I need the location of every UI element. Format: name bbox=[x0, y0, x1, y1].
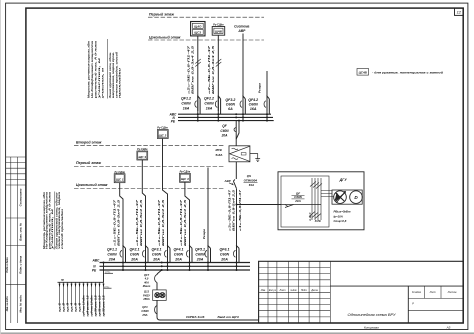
svg-text:С60N: С60N bbox=[181, 102, 191, 106]
cable label QF6.1 column bbox=[238, 189, 242, 231]
svg-text:ЩС 4: ЩС 4 bbox=[181, 177, 189, 181]
svg-text:20А: 20А bbox=[294, 199, 301, 203]
svg-text:20А: 20А bbox=[221, 133, 229, 137]
svg-text:20А: 20А bbox=[152, 257, 160, 261]
svg-text:гр.11 осв. 1,0: гр.11 осв. 1,0 bbox=[97, 295, 101, 317]
svg-text:ДГУ: ДГУ bbox=[339, 178, 348, 182]
svg-text:«1»-5Б-0,8-П1-47: «1»-5Б-0,8-П1-47 bbox=[238, 189, 242, 231]
svg-text:С60N: С60N bbox=[220, 129, 229, 133]
svg-text:Второй этаж: Второй этаж bbox=[76, 140, 102, 144]
svg-text:С60N: С60N bbox=[152, 252, 162, 256]
svg-text:ВВГнг 0,8-5х4 2,5: ВВГнг 0,8-5х4 2,5 bbox=[139, 199, 143, 246]
svg-text:6А: 6А bbox=[228, 107, 233, 111]
svg-text:ЩАО: ЩАО bbox=[194, 25, 202, 29]
svg-text:гр: гр bbox=[61, 278, 64, 281]
svg-text:QF1.2: QF1.2 bbox=[181, 97, 191, 101]
svg-text:Q13: Q13 bbox=[144, 290, 149, 294]
breaker QF5.1 bbox=[195, 245, 211, 270]
svg-text:- для уравнив. потенциалов с в: - для уравнив. потенциалов с ванной bbox=[372, 71, 443, 75]
breaker QF4.2 bbox=[248, 96, 269, 121]
svg-text:А, В, С: А, В, С bbox=[308, 212, 312, 222]
surge protector МТВ 5х8А bbox=[216, 146, 250, 162]
title block texts bbox=[261, 289, 457, 306]
svg-text:гр.7 осв. 1,0 кВт: гр.7 осв. 1,0 кВт bbox=[81, 295, 85, 317]
breaker QF (feeder to МТВ) bbox=[220, 121, 239, 146]
energy meter Q13 bbox=[142, 290, 166, 306]
svg-text:ЦС4В: ЦС4В bbox=[359, 70, 368, 74]
svg-text:Подп.: Подп. bbox=[301, 289, 308, 292]
wire: ЩЧВ feeder down to QF2.2 bbox=[207, 35, 218, 111]
breaker QF2.2 bbox=[204, 96, 221, 121]
svg-text:ВВГнг 0,8-5х4 2,5: ВВГнг 0,8-5х4 2,5 bbox=[232, 189, 236, 231]
svg-text:Листов: Листов bbox=[447, 291, 457, 294]
svg-text:С60N: С60N bbox=[220, 252, 230, 256]
breaker QF3.1 bbox=[152, 245, 171, 270]
svg-text:Лист: Лист bbox=[279, 289, 286, 292]
svg-text:сеть: сеть bbox=[104, 286, 110, 288]
panel box ЩС3 bbox=[137, 148, 148, 160]
svg-text:участок, м: участок, м bbox=[102, 68, 105, 100]
svg-text:С60N: С60N bbox=[107, 252, 117, 256]
svg-text:63А: 63А bbox=[249, 183, 254, 187]
svg-text:РИЗУ: РИЗУ bbox=[143, 293, 150, 297]
cable label QF1.1 bbox=[113, 199, 121, 246]
svg-text:АВС: АВС bbox=[92, 259, 101, 263]
breaker QF1.1 bbox=[107, 245, 126, 270]
svg-text:5х8А: 5х8А bbox=[216, 153, 223, 157]
floor line: Второй этаж bbox=[74, 140, 225, 145]
cable label QF4.1 bbox=[179, 199, 187, 246]
floor line: Цокольный этаж (mid) bbox=[74, 183, 224, 188]
title block bbox=[259, 261, 464, 323]
panel box ЩС1 bbox=[114, 171, 125, 183]
svg-text:ВВГнг 0,8-5х4 2,5: ВВГнг 0,8-5х4 2,5 bbox=[183, 199, 187, 246]
breaker QF1.2 bbox=[181, 96, 200, 121]
svg-text:прокладки: прокладки bbox=[119, 67, 122, 98]
wire: reserve feeder QF4.2 bbox=[258, 71, 268, 111]
svg-text:гр.1: гр.1 bbox=[57, 302, 61, 312]
floor line: Первый этаж (top) bbox=[148, 13, 264, 18]
svg-text:С60N: С60N bbox=[195, 252, 205, 256]
svg-text:АВР: АВР bbox=[224, 179, 231, 183]
svg-text:ЩС 1: ЩС 1 bbox=[116, 178, 124, 182]
table header rotated text (upper section) bbox=[88, 39, 122, 101]
bus АВС (lower) bbox=[92, 259, 251, 263]
svg-text:16А: 16А bbox=[206, 107, 213, 111]
svg-text:гр.8 розет. 1,5: гр.8 розет. 1,5 bbox=[85, 295, 89, 317]
wire: Система АВР feeder down to QF3.2 bbox=[242, 34, 244, 112]
svg-text:Монт: Монт bbox=[143, 284, 151, 288]
svg-text:40А: 40А bbox=[143, 280, 149, 284]
svg-text:РВых=5кВт: РВых=5кВт bbox=[334, 210, 351, 214]
svg-text:Согласовано: Согласовано bbox=[19, 188, 23, 206]
wire ЩС3 to QF2.1 bbox=[142, 160, 145, 246]
svg-text:Инв. № подл.: Инв. № подл. bbox=[6, 296, 9, 312]
svg-text:4,0: 4,0 bbox=[144, 277, 149, 281]
stub line 2 bbox=[104, 286, 112, 288]
svg-text:QF4.2: QF4.2 bbox=[248, 98, 258, 102]
svg-text:Однолинейная схема ВРУ: Однолинейная схема ВРУ bbox=[348, 313, 397, 317]
svg-text:Копировал: Копировал bbox=[364, 326, 379, 330]
floor line: Цокольный этаж (top) bbox=[148, 36, 264, 40]
svg-text:20А: 20А bbox=[220, 257, 228, 261]
generator ratings text bbox=[333, 210, 351, 224]
svg-text:С60N: С60N bbox=[130, 252, 140, 256]
bus N (lower) bbox=[93, 265, 250, 269]
wire reserve QF5.1 bbox=[202, 168, 208, 247]
svg-text:Инв. № подл.: Инв. № подл. bbox=[19, 294, 23, 312]
svg-text:Ввод от ЩУЗ: Ввод от ЩУЗ bbox=[218, 315, 239, 319]
wire ЩС2 to QF3.1 bbox=[163, 139, 168, 247]
svg-text:20А: 20А bbox=[108, 257, 116, 261]
svg-text:С60N: С60N bbox=[249, 102, 259, 106]
svg-text:25А: 25А bbox=[141, 313, 147, 317]
note box ЦС4В bbox=[357, 69, 443, 76]
svg-text:СИП2А 4х16: СИП2А 4х16 bbox=[186, 315, 205, 319]
svg-text:ЩС 3: ЩС 3 bbox=[138, 155, 146, 159]
svg-text:Первый этаж: Первый этаж bbox=[76, 161, 101, 165]
svg-text:сеть: сеть bbox=[105, 271, 111, 273]
bus N (upper) bbox=[173, 116, 274, 120]
svg-text:ЩСЗ: ЩСЗ bbox=[194, 31, 201, 35]
floor line: Первый этаж (mid) bbox=[74, 161, 225, 166]
svg-text:ОТМ63Ф4: ОТМ63Ф4 bbox=[244, 178, 258, 182]
phase labels in ДГУ bbox=[308, 212, 321, 222]
svg-text:Cosφ=0,8: Cosφ=0,8 bbox=[334, 219, 347, 223]
wire АВР down / junction to ДГУ bbox=[228, 189, 282, 248]
svg-text:С60N: С60N bbox=[204, 102, 214, 106]
svg-text:QF7: QF7 bbox=[144, 273, 150, 277]
generator G/D block bbox=[332, 190, 362, 204]
svg-text:QF4.1: QF4.1 bbox=[174, 247, 184, 251]
junction dots lower bus bbox=[103, 262, 238, 272]
svg-text:Цокольный этаж: Цокольный этаж bbox=[76, 183, 108, 187]
svg-text:Ру-СДде: Ру-СДде bbox=[213, 23, 224, 26]
wire ЩС1 to QF1.1 bbox=[120, 183, 123, 246]
breaker QF4.1 bbox=[174, 245, 193, 270]
svg-text:QS: QS bbox=[247, 174, 251, 178]
svg-text:АВР: АВР bbox=[237, 29, 246, 33]
stub line 1 bbox=[105, 271, 114, 273]
panel box ЩАО/ЩСЗ bbox=[191, 22, 205, 36]
junction dots upper bus bbox=[197, 113, 268, 121]
svg-text:Iр=10А: Iр=10А bbox=[333, 214, 342, 218]
svg-text:Кол.уч: Кол.уч bbox=[269, 289, 277, 292]
svg-text:гр.5: гр.5 bbox=[73, 302, 77, 312]
wire ЩС4 to QF4.1 bbox=[185, 182, 190, 246]
svg-text:А3: А3 bbox=[446, 326, 451, 330]
panel box ЩС2 bbox=[157, 127, 168, 139]
svg-text:Дата: Дата bbox=[310, 289, 318, 292]
svg-text:ЩС 2: ЩС 2 bbox=[159, 133, 167, 137]
left stamp column bbox=[6, 157, 26, 323]
svg-text:Резерв: Резерв bbox=[258, 83, 262, 93]
svg-text:Резерв: Резерв bbox=[202, 229, 206, 239]
svg-text:20А: 20А bbox=[174, 257, 182, 261]
svg-text:гр.12 роз. 1,5: гр.12 роз. 1,5 bbox=[101, 295, 105, 317]
svg-text:QF5.1: QF5.1 bbox=[195, 247, 205, 251]
svg-text:Лист: Лист bbox=[429, 291, 436, 294]
svg-text:МТВ: МТВ bbox=[216, 148, 222, 152]
svg-text:участка, м: участка, м bbox=[51, 209, 54, 252]
generator unit ДГУ box bbox=[278, 172, 364, 230]
cable bundle in ДГУ bbox=[309, 178, 334, 220]
svg-text:QF2.1: QF2.1 bbox=[130, 247, 140, 251]
svg-text:гр.2: гр.2 bbox=[61, 302, 65, 312]
input cable line from ЩУЗ bbox=[160, 315, 259, 320]
svg-text:12: 12 bbox=[457, 10, 462, 15]
input breaker QF7 bbox=[143, 270, 162, 290]
svg-text:Цокольный этаж: Цокольный этаж bbox=[149, 36, 181, 40]
svg-text:гр.6: гр.6 bbox=[77, 302, 81, 312]
svg-text:гр.9 осв. 1,0 кВт: гр.9 осв. 1,0 кВт bbox=[89, 295, 93, 317]
transfer switch АВР QF / QS bbox=[224, 174, 258, 189]
svg-text:ЩЧВ: ЩЧВ bbox=[215, 30, 222, 34]
svg-text:ВВГнг 0,8-3х4 2,5: ВВГнг 0,8-3х4 2,5 bbox=[211, 45, 215, 94]
breaker QF2.1 bbox=[130, 245, 149, 270]
svg-text:20А: 20А bbox=[130, 257, 138, 261]
svg-text:16А: 16А bbox=[250, 107, 257, 111]
svg-text:гр.3: гр.3 bbox=[65, 302, 69, 312]
ground (right of МТВ) bbox=[250, 154, 260, 162]
breaker QF3.2 bbox=[225, 96, 245, 121]
group feed drop bbox=[103, 263, 105, 283]
cable label QF3.1 bbox=[157, 199, 165, 246]
svg-text:25КА: 25КА bbox=[142, 297, 149, 301]
group bus line bbox=[58, 278, 104, 282]
svg-text:№док: №док bbox=[290, 289, 297, 292]
svg-text:20А: 20А bbox=[196, 257, 204, 261]
svg-text:С60N: С60N bbox=[174, 252, 184, 256]
cable label QF2.1 bbox=[135, 199, 143, 246]
wire feed inside ДГУ bbox=[281, 204, 321, 206]
bus PE (upper) bbox=[171, 119, 274, 123]
group labels bbox=[57, 295, 105, 317]
panel box ЩЧВ bbox=[212, 23, 225, 35]
svg-text:Подп. и дата: Подп. и дата bbox=[6, 257, 9, 273]
svg-text:Подп. и дата: Подп. и дата bbox=[19, 255, 23, 273]
svg-text:Первый этаж: Первый этаж bbox=[149, 13, 174, 17]
panel box ЩС4 bbox=[180, 170, 191, 182]
svg-text:гр.10 роз. 1,5: гр.10 роз. 1,5 bbox=[93, 295, 97, 317]
svg-text:С60N: С60N bbox=[226, 102, 236, 106]
svg-text:ВВГнг 0,8-5х4 2,5: ВВГнг 0,8-5х4 2,5 bbox=[161, 199, 165, 246]
table header rotated text (lower section) bbox=[43, 191, 64, 252]
svg-text:QF1.1: QF1.1 bbox=[107, 247, 117, 251]
input breaker QF1 25А bbox=[141, 300, 160, 320]
sheet number cell 12 bbox=[455, 8, 464, 15]
svg-text:Стадия: Стадия bbox=[412, 291, 422, 294]
svg-text:N РЕ: N РЕ bbox=[315, 219, 321, 223]
svg-text:QF3.2: QF3.2 bbox=[225, 98, 235, 102]
svg-text:Взам. инв. №: Взам. инв. № bbox=[19, 222, 23, 241]
bus АВС (upper) bbox=[169, 113, 272, 117]
svg-text:QF3.1: QF3.1 bbox=[152, 247, 162, 251]
svg-text:гр.4: гр.4 bbox=[69, 302, 73, 312]
svg-text:Ру-СДде: Ру-СДде bbox=[180, 170, 191, 173]
svg-text:ВВГнг 0,8-5х4 2,5: ВВГнг 0,8-5х4 2,5 bbox=[117, 199, 121, 246]
wire: ЩАО feeder down to QF1.2 bbox=[186, 36, 198, 111]
left stamp rotated labels bbox=[6, 188, 22, 312]
group lines with top arrows bbox=[59, 282, 105, 314]
label Система АВР bbox=[234, 25, 249, 33]
svg-text:QF2.2: QF2.2 bbox=[204, 97, 214, 101]
breaker QF6.1 bbox=[220, 245, 240, 270]
wire МТВ to АВР switch bbox=[235, 162, 237, 179]
svg-text:ВВГнг 0,8-3х4 2,5: ВВГнг 0,8-3х4 2,5 bbox=[190, 45, 194, 94]
breaker QF (inside ДГУ) bbox=[285, 192, 305, 208]
cable tick marks row2 feeders bbox=[195, 59, 221, 67]
svg-text:способ прокладки: способ прокладки bbox=[61, 208, 64, 249]
svg-text:Изм.: Изм. bbox=[261, 289, 266, 292]
svg-text:QF6.1: QF6.1 bbox=[220, 247, 230, 251]
bus PE (lower) bbox=[92, 269, 250, 273]
svg-text:16А: 16А bbox=[183, 107, 190, 111]
